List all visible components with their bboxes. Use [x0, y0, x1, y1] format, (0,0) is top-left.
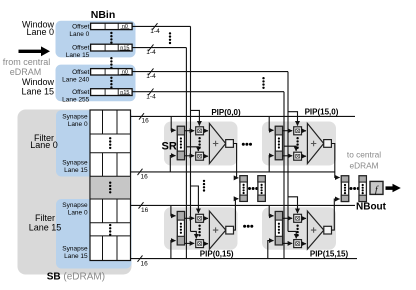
svg-text:16: 16	[141, 207, 149, 214]
output register PIP(15,0)	[324, 140, 332, 148]
branch bus lane 255 into PIP(15,0) lower multiplier	[284, 146, 296, 151]
svg-text:Synapse: Synapse	[62, 159, 88, 166]
dots SB gray band filter lanes	[109, 182, 111, 194]
SB synapse group filter lane 0	[56, 110, 132, 176]
dots shift chain left	[248, 187, 258, 190]
NBin buffer group window lane 15	[56, 65, 136, 102]
wire SR to multiplier 1 PIP(0,0)	[185, 130, 195, 132]
svg-text:Lane 255: Lane 255	[62, 97, 89, 104]
svg-text:to central: to central	[347, 150, 381, 160]
svg-text:16: 16	[141, 174, 149, 181]
svg-text:SB (eDRAM): SB (eDRAM)	[47, 271, 105, 282]
wire SR to multiplier 2 PIP(0,15)	[185, 242, 195, 244]
register offset lane 255	[91, 89, 133, 96]
svg-text:Synapse: Synapse	[62, 113, 88, 120]
svg-text:Lane 0: Lane 0	[68, 209, 88, 216]
wire offset lane 240 to column 1 bus	[132, 71, 288, 73]
svg-text:Lane 240: Lane 240	[62, 77, 89, 84]
branch bus lane 0 into PIP(0,0) multiplier	[191, 110, 200, 125]
branch synapse wire into PIP(15,15) SR bottom	[268, 241, 274, 259]
branch synapse wire into PIP(0,15) SR bottom	[171, 241, 176, 259]
PIP(15,0) block background	[262, 122, 336, 166]
dots multipliers PIP(15,15)	[296, 225, 298, 237]
multiplier 1 PIP(15,0)	[294, 127, 302, 135]
multiplier 1 PIP(15,15)	[294, 214, 302, 222]
branch bus lane 15 into PIP(0,0) lower multiplier	[186, 147, 198, 151]
wire multiplier 1 to adder PIP(0,15)	[204, 217, 209, 219]
dots multipliers PIP(15,0)	[296, 137, 298, 149]
shift register SR PIP(15,0)	[275, 126, 282, 159]
wire multiplier 2 to adder PIP(0,15)	[204, 243, 209, 245]
branch bus lane 240 into PIP(15,0) multiplier	[288, 112, 298, 126]
wire SR to multiplier 1 PIP(15,0)	[283, 130, 293, 132]
SB synapse wire row 15 top (16 bit)	[131, 204, 355, 206]
dots PIP rows vertical	[203, 180, 205, 192]
svg-text:Offset: Offset	[72, 89, 89, 96]
wire PIP(0,0) output to shift chain	[233, 144, 238, 178]
dots between offset lanes 0-15	[110, 32, 112, 44]
output register PIP(0,0)	[226, 140, 234, 148]
branch synapse wire into PIP(15,15) SR top	[269, 205, 273, 215]
dots between offset lanes 240-255	[110, 77, 112, 89]
shift chain register 1	[240, 176, 247, 202]
SB synapse wire row 0 bottom (16 bit)	[131, 171, 335, 173]
svg-text:eDRAM: eDRAM	[349, 161, 378, 171]
svg-text:NBout: NBout	[356, 202, 387, 213]
branch bus lane 0 into PIP(0,15) lower multiplier	[191, 231, 197, 238]
bus column 0 lane 0 vertical	[190, 26, 192, 231]
svg-text:PIP(15,0): PIP(15,0)	[305, 107, 339, 116]
svg-text:1-4: 1-4	[146, 73, 156, 80]
dots PIP row 0 columns	[242, 143, 252, 146]
branch bus lane 0 into PIP(0,15) multiplier	[191, 186, 199, 213]
shift register SR PIP(0,15)	[177, 212, 184, 245]
wire SR to multiplier 1 PIP(0,15)	[185, 217, 195, 219]
wire multiplier 2 to adder PIP(0,0)	[204, 155, 209, 157]
wire offset lane 0 to column 0 bus	[132, 25, 190, 27]
input arrow from central eDRAM	[19, 46, 51, 56]
svg-text:1-4: 1-4	[146, 49, 156, 56]
svg-text:Lane 0: Lane 0	[68, 121, 88, 128]
svg-text:Synapse: Synapse	[62, 202, 88, 209]
NBout shift register 2	[359, 176, 366, 202]
multiplier 2 PIP(15,0)	[294, 152, 302, 160]
svg-text:n0: n0	[122, 24, 128, 30]
NBin buffer group window lane 0	[56, 21, 136, 58]
wire multiplier 2 to adder PIP(15,15)	[302, 243, 307, 245]
output register PIP(15,15)	[324, 226, 332, 234]
svg-text:Filter: Filter	[35, 213, 55, 223]
svg-text:PIP(15,15): PIP(15,15)	[310, 249, 349, 258]
register offset lane 0	[91, 23, 133, 30]
svg-text:16: 16	[141, 260, 149, 267]
branch synapse wire into PIP(15,0) SR bottom	[269, 156, 273, 172]
dots between lane 240-255 wires	[262, 77, 264, 89]
svg-text:1-4: 1-4	[146, 93, 156, 100]
wire offset lane 255 to column 1 bus	[132, 91, 284, 93]
wire offset lane 15 to column 0 bus	[132, 47, 186, 49]
shift register SR PIP(15,15)	[275, 212, 282, 245]
bus column 1 lane 255 vertical	[283, 92, 285, 259]
wire SR to multiplier 2 PIP(15,0)	[283, 155, 293, 157]
dots SB gap rows 16-30	[109, 224, 111, 236]
bus column 1 lane 240 vertical	[287, 72, 289, 232]
svg-text:Lane 0: Lane 0	[30, 140, 58, 150]
PIP(0,0) block background	[164, 122, 238, 166]
svg-text:Lane 0: Lane 0	[26, 27, 54, 37]
branch synapse wire into PIP(0,0) SR bottom	[170, 156, 175, 172]
branch synapse wire into PIP(0,15) SR top	[171, 205, 176, 215]
wire SR to multiplier 2 PIP(15,15)	[283, 242, 293, 244]
multiplier 2 PIP(0,15)	[196, 240, 204, 248]
multiplier 2 PIP(0,0)	[196, 152, 204, 160]
wire multiplier 2 to adder PIP(15,0)	[302, 155, 307, 157]
dots multipliers PIP(0,15)	[198, 225, 200, 237]
dots SB gap rows 1-15	[109, 137, 111, 149]
adder PIP(0,15)	[209, 211, 225, 249]
branch bus lane 240 into PIP(15,15) multiplier	[288, 197, 298, 213]
activation function f box	[370, 181, 383, 195]
dots NBout chain	[350, 187, 360, 190]
register offset lane 15	[91, 44, 133, 51]
svg-text:NBin: NBin	[91, 9, 116, 21]
shift register SR PIP(0,0)	[177, 126, 184, 159]
wire multiplier 1 to adder PIP(15,0)	[302, 130, 307, 132]
SB register grid	[90, 110, 131, 261]
dots PIP row 15 columns	[243, 225, 253, 228]
SB synapse wire row 15 bottom (16 bit)	[131, 258, 357, 260]
svg-text:from central: from central	[3, 57, 51, 67]
SB synapse wire row 0 top (16 bit)	[131, 115, 355, 117]
SB synapse group filter lane 15	[56, 199, 132, 269]
svg-text:Lane 15: Lane 15	[29, 223, 62, 233]
multiplier 1 PIP(0,0)	[196, 127, 204, 135]
svg-text:16: 16	[142, 118, 150, 125]
svg-text:Offset: Offset	[72, 44, 89, 51]
dots multipliers PIP(0,0)	[198, 137, 200, 149]
wire SR to multiplier 2 PIP(0,0)	[185, 155, 195, 157]
svg-text:SR: SR	[162, 141, 177, 153]
wire multiplier 1 to adder PIP(0,0)	[204, 130, 209, 132]
svg-text:Offset: Offset	[72, 23, 89, 30]
wire PIP(15,0) output to NBout chain	[331, 144, 339, 178]
svg-text:Lane 15: Lane 15	[64, 167, 88, 174]
svg-text:Synapse: Synapse	[62, 245, 88, 252]
adder PIP(15,15)	[307, 211, 323, 249]
shift chain register 2	[258, 176, 265, 202]
dots between lane 0-15 wires	[169, 32, 171, 44]
branch bus lane 240 into PIP(15,15) lower multiplier	[288, 231, 296, 238]
svg-text:Lane 15: Lane 15	[66, 52, 90, 59]
multiplier 2 PIP(15,15)	[294, 240, 302, 248]
branch synapse wire into PIP(15,0) SR top	[269, 116, 273, 130]
svg-text:PIP(0,0): PIP(0,0)	[211, 108, 241, 117]
NBout output arrow	[386, 184, 401, 193]
wire SR to multiplier 1 PIP(15,15)	[283, 217, 293, 219]
adder PIP(0,0)	[209, 123, 225, 163]
dots between window lanes	[110, 57, 112, 69]
bus column 0 lane 15 vertical	[185, 48, 187, 259]
svg-text:Lane 0: Lane 0	[69, 31, 89, 38]
output register PIP(0,15)	[226, 226, 234, 234]
adder PIP(15,0)	[307, 123, 323, 163]
svg-text:Lane 15: Lane 15	[64, 253, 88, 260]
svg-text:1-4: 1-4	[150, 28, 160, 35]
register offset lane 240	[91, 69, 133, 76]
wire PIP(15,15) output to NBout chain	[332, 199, 340, 230]
multiplier 1 PIP(0,15)	[196, 214, 204, 222]
svg-text:eDRAM: eDRAM	[10, 67, 42, 77]
branch synapse wire into PIP(0,0) SR top	[171, 116, 175, 130]
SB filter-lane block (eDRAM)	[18, 110, 132, 275]
svg-text:Offset: Offset	[72, 69, 89, 76]
svg-text:Lane 15: Lane 15	[21, 86, 54, 96]
svg-text:PIP(0,15): PIP(0,15)	[200, 250, 234, 259]
NBout shift register 1	[341, 176, 348, 202]
PIP(15,15) block background	[262, 207, 336, 250]
wire PIP(0,15) output to shift chain	[234, 199, 239, 230]
PIP(0,15) block background	[164, 207, 238, 250]
wire multiplier 1 to adder PIP(15,15)	[302, 217, 307, 219]
